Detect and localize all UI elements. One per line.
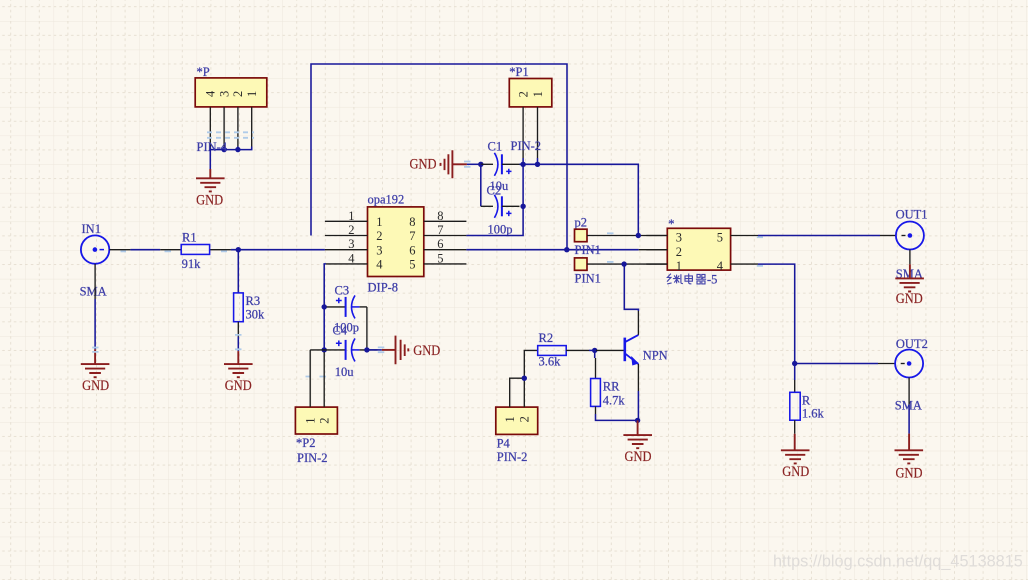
wire C1 down to C2 (left) xyxy=(480,164,482,206)
junction P4 pins xyxy=(522,376,527,381)
wire R to ground xyxy=(794,420,796,434)
connector p2 (1-pin header) xyxy=(575,216,588,242)
svg-text:30k: 30k xyxy=(246,308,266,322)
junction GND / C1 xyxy=(478,162,483,167)
svg-text:C1: C1 xyxy=(488,139,503,153)
svg-text:PIN-2: PIN-2 xyxy=(297,451,328,465)
capacitor C2 xyxy=(481,184,520,237)
wire emitter down xyxy=(637,364,639,391)
svg-text:PIN-4: PIN-4 xyxy=(197,140,228,154)
connector P (*P header 4-pin) xyxy=(195,65,267,107)
svg-text:OUT1: OUT1 xyxy=(896,208,928,222)
resistor R2 xyxy=(538,331,589,369)
svg-text:5: 5 xyxy=(717,231,723,245)
svg-text:GND: GND xyxy=(225,378,252,394)
junction at *P pin2 xyxy=(235,147,240,152)
svg-text:1: 1 xyxy=(304,417,318,423)
svg-text:R: R xyxy=(802,394,811,408)
wire *P1 pin1 down xyxy=(537,107,539,158)
svg-text:DIP-8: DIP-8 xyxy=(368,281,399,295)
pin 8 of op-amp xyxy=(424,220,467,222)
svg-text:GND: GND xyxy=(82,378,109,394)
wire bus joining *P pins xyxy=(210,147,251,150)
error mark on wire xyxy=(121,250,127,252)
svg-text:2: 2 xyxy=(516,91,530,97)
ground GND under OUT1 xyxy=(895,264,924,307)
connector PIN1 (1-pin header) xyxy=(575,258,601,286)
connector OUT2 SMA xyxy=(895,337,928,413)
wire op-amp pin6 to relay pin2 xyxy=(466,249,638,251)
wire *P2 pin2 up xyxy=(323,352,325,407)
pin 6 of op-amp xyxy=(424,249,467,251)
junction *P1 pin1 xyxy=(535,162,540,167)
connector IN1 SMA xyxy=(80,222,110,299)
svg-text:2: 2 xyxy=(676,245,682,259)
wire top loop from op-amp pin2 to pin6 net xyxy=(311,64,567,250)
pin of IN1 down xyxy=(94,264,96,299)
error marks near relay right pins xyxy=(757,237,763,266)
connector P4 (2-pin header) xyxy=(496,407,538,464)
junction C4 left xyxy=(322,347,327,352)
wire pin3 of *P down xyxy=(223,107,225,147)
svg-text:PIN-2: PIN-2 xyxy=(511,139,542,153)
svg-text:1: 1 xyxy=(531,91,545,97)
error marks near P2 risers xyxy=(306,347,385,376)
svg-text:4: 4 xyxy=(717,259,724,273)
wire *P1 pins to PIN-2 net xyxy=(523,158,537,164)
svg-text:GND: GND xyxy=(782,464,809,480)
wire *P1 pin2 down xyxy=(522,107,524,158)
wire collector up to PIN1 node xyxy=(637,311,639,335)
wire R1 to op-amp pin3 xyxy=(231,249,325,251)
svg-text:R1: R1 xyxy=(182,231,197,245)
svg-text:1: 1 xyxy=(676,259,682,273)
junction C3 left xyxy=(322,304,327,309)
ground GND under NPN xyxy=(623,420,652,465)
junction OUT2 / R xyxy=(792,361,797,366)
junction R1/R3 xyxy=(236,247,241,252)
svg-text:4: 4 xyxy=(376,258,383,272)
pin 5 of op-amp xyxy=(424,263,467,265)
svg-text:3: 3 xyxy=(348,237,354,251)
ground GND under *P xyxy=(196,169,225,209)
connector *P1 (2-pin header) xyxy=(509,65,552,107)
svg-text:C2: C2 xyxy=(487,184,502,198)
svg-text:*P2: *P2 xyxy=(296,436,315,450)
svg-text:R2: R2 xyxy=(539,331,554,345)
svg-text:2: 2 xyxy=(318,417,332,423)
svg-text:PIN-2: PIN-2 xyxy=(497,450,528,464)
pin of IN1 right xyxy=(109,249,130,251)
pin 2 of op-amp xyxy=(325,235,368,237)
svg-text:GND: GND xyxy=(413,343,440,359)
svg-text:GND: GND xyxy=(896,465,923,481)
pin 4 of relay xyxy=(731,263,758,265)
svg-text:NPN: NPN xyxy=(643,349,668,363)
wire P4 pin2 up to R2 xyxy=(524,350,537,407)
svg-text:100p: 100p xyxy=(488,223,513,237)
svg-text:IN1: IN1 xyxy=(82,222,101,236)
svg-text:C4: C4 xyxy=(333,324,348,338)
pin 4 of op-amp xyxy=(326,263,368,265)
svg-text:R3: R3 xyxy=(246,294,261,308)
svg-text:1: 1 xyxy=(348,209,354,223)
svg-text:4.7k: 4.7k xyxy=(603,393,626,407)
svg-text:2: 2 xyxy=(518,416,532,422)
junction C1 / *P1 pin2 xyxy=(520,162,525,167)
wire junction down to RR xyxy=(594,350,596,358)
svg-text:RR: RR xyxy=(603,379,620,393)
svg-text:3: 3 xyxy=(676,231,682,245)
wire IN1 to R1 xyxy=(130,249,160,251)
wire pin1 of *P down xyxy=(251,107,253,147)
svg-text:GND: GND xyxy=(625,449,652,465)
wire P4 pin1 up and over xyxy=(510,378,525,407)
wire RR bottom to emitter node xyxy=(596,414,638,420)
svg-text:7: 7 xyxy=(437,223,443,237)
svg-text:GND: GND xyxy=(896,291,923,307)
junction R2/RR/base xyxy=(592,348,597,353)
ground GND under R xyxy=(781,434,810,480)
resistor R3 xyxy=(234,293,265,322)
wire C3 right down to C4 right xyxy=(366,307,368,350)
svg-text:5: 5 xyxy=(409,258,415,272)
wire junction down to R3 xyxy=(237,250,239,293)
capacitor C1 xyxy=(481,139,520,193)
junction p2 wire / PIN-2 riser xyxy=(636,233,641,238)
svg-text:GND: GND xyxy=(410,156,437,172)
pin 1 of op-amp xyxy=(325,220,368,222)
svg-text:*P1: *P1 xyxy=(509,65,528,79)
svg-text:3: 3 xyxy=(376,243,382,257)
wire op-amp pin4 elbow down xyxy=(324,264,326,350)
svg-text:4: 4 xyxy=(348,251,355,265)
ground GND left of C1 (rotated) xyxy=(410,150,481,178)
svg-text:opa192: opa192 xyxy=(368,193,405,207)
wire node down to R xyxy=(794,364,796,381)
svg-text:*P: *P xyxy=(197,65,210,79)
wire node to OUT2 xyxy=(795,363,878,365)
pin of OUT2 down xyxy=(908,378,910,405)
wire p2 to relay pin3 xyxy=(587,235,667,237)
svg-text:8: 8 xyxy=(409,215,415,229)
wire R3 to ground xyxy=(237,322,239,337)
relay K1 (继电器-5) xyxy=(667,217,730,270)
relay name 继电器-5 xyxy=(667,274,706,284)
resistor RR xyxy=(591,358,626,414)
ground GND right of C4 (rotated) xyxy=(367,336,440,365)
junction at *P pin3 xyxy=(221,147,226,152)
error marks near R1 xyxy=(165,250,228,252)
svg-text:PIN1: PIN1 xyxy=(575,271,601,285)
capacitor C3 xyxy=(327,284,367,335)
wire *P2 pin1 up xyxy=(309,350,311,407)
pin 5 of relay xyxy=(731,235,758,237)
svg-text:6: 6 xyxy=(409,243,415,257)
svg-text:p2: p2 xyxy=(575,216,588,230)
op-amp U1 opa192 DIP-8 xyxy=(368,193,424,295)
connector OUT1 SMA xyxy=(896,208,928,281)
transistor Q1 NPN xyxy=(596,335,668,366)
junction emitter / RR bottom xyxy=(635,418,640,423)
svg-text:6: 6 xyxy=(437,237,443,251)
svg-text:8: 8 xyxy=(437,209,443,223)
svg-text:P4: P4 xyxy=(497,437,511,451)
junction PIN1 wire / collector riser xyxy=(621,261,626,266)
pin 2 of relay xyxy=(646,249,667,251)
junction C2 / riser xyxy=(520,204,525,209)
pin 7 of op-amp xyxy=(424,235,467,237)
junction C4 right xyxy=(364,347,369,352)
svg-text:4: 4 xyxy=(204,90,218,97)
wire riser from op-amp pin7 up through C2 to C1 junction xyxy=(466,164,523,235)
svg-text:5: 5 xyxy=(437,251,443,265)
svg-text:1: 1 xyxy=(376,215,382,229)
svg-text:1: 1 xyxy=(503,416,517,422)
ground GND under IN1 xyxy=(81,349,110,394)
connector *P2 (2-pin header) xyxy=(295,407,337,465)
svg-text:PIN1: PIN1 xyxy=(575,243,601,257)
svg-text:7: 7 xyxy=(409,229,415,243)
wire PIN-2 net to relay column xyxy=(520,164,639,235)
svg-text:C3: C3 xyxy=(335,284,350,298)
resistor R1 xyxy=(160,231,231,272)
svg-text:-5: -5 xyxy=(707,272,717,286)
compile error marks under PIN-4 xyxy=(207,131,254,133)
svg-text:1.6k: 1.6k xyxy=(802,407,825,421)
ground GND under OUT2 xyxy=(895,434,924,482)
wire PIN1 box to relay pin1 xyxy=(587,263,667,265)
pin 3 of relay xyxy=(646,235,667,237)
svg-text:SMA: SMA xyxy=(80,285,107,299)
svg-text:https://blog.csdn.net/qq_45138: https://blog.csdn.net/qq_45138815 xyxy=(773,553,1023,571)
wire pin4 of *P down xyxy=(209,107,211,147)
wire relay pin5 to OUT1 xyxy=(758,235,880,237)
svg-text:3: 3 xyxy=(217,91,231,97)
pin of OUT1 down xyxy=(909,250,911,265)
pin 3 of op-amp xyxy=(325,249,368,251)
capacitor C4 xyxy=(310,324,377,379)
wire *P to ground xyxy=(209,150,211,169)
wire pin2 of *P down xyxy=(237,107,239,147)
wire relay pin4 to OUT2 node xyxy=(758,264,795,363)
wire R2 to base junction xyxy=(589,349,596,351)
svg-text:2: 2 xyxy=(348,223,354,237)
svg-text:91k: 91k xyxy=(182,257,202,271)
svg-text:10u: 10u xyxy=(335,365,355,379)
junction top loop / pin6 wire xyxy=(564,247,569,252)
pin 1 of relay xyxy=(646,263,667,265)
svg-text:GND: GND xyxy=(196,193,223,209)
ground GND under R3 xyxy=(224,351,253,394)
svg-text:2: 2 xyxy=(376,229,382,243)
svg-text:2: 2 xyxy=(231,91,245,97)
svg-text:3.6k: 3.6k xyxy=(539,355,562,369)
resistor R xyxy=(790,392,825,420)
svg-text:1: 1 xyxy=(245,91,259,97)
